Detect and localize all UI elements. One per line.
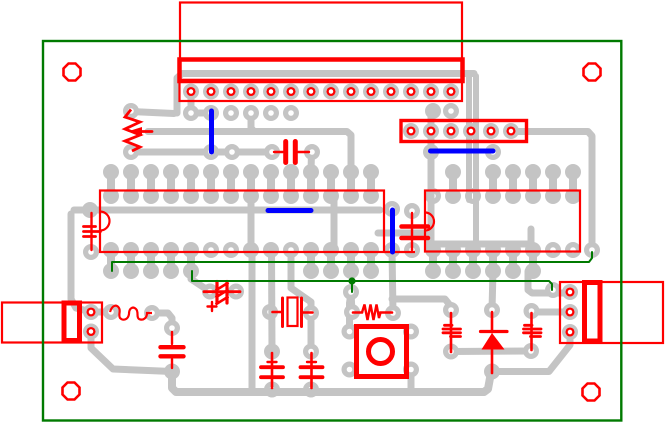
jumper W4 — [390, 210, 395, 252]
capacitor C5 — [524, 313, 542, 350]
pair link low x453 — [449, 250, 457, 271]
pair link x131 — [127, 172, 135, 196]
pair link x151 — [147, 172, 155, 196]
IC U2 notch — [425, 213, 434, 231]
pair link low x131 — [127, 250, 135, 271]
pair link x493 — [489, 172, 497, 196]
wire R1 left up — [351, 292, 352, 312]
pair link x191 — [187, 172, 195, 196]
jumper W3 — [431, 149, 494, 154]
pair link low x351 — [347, 250, 355, 271]
wire bus col B — [473, 76, 479, 244]
pair link low x371 — [367, 250, 375, 271]
capacitor C3 — [402, 213, 429, 250]
wire C6 diag — [191, 271, 210, 292]
pair link x311 — [307, 172, 315, 196]
wire blue4 col — [392, 250, 393, 313]
mounting hole bottom-right — [583, 384, 600, 401]
wire pot top to via — [131, 112, 174, 114]
wire crystal to C9 — [308, 313, 315, 352]
wire col251 down — [249, 250, 256, 391]
capacitor C2 — [274, 142, 309, 163]
trimmer RV1 — [125, 110, 152, 152]
pair link x553 — [549, 172, 557, 196]
capacitor C8 — [261, 353, 283, 388]
pair link low x331 — [327, 250, 335, 271]
wire J1 pin1 down — [191, 92, 211, 114]
pair link x171 — [167, 172, 175, 196]
connector X1 body — [2, 303, 102, 343]
mounting hole top-left — [64, 64, 81, 81]
silk line under C3 — [384, 251, 415, 253]
IC U1 outline — [100, 191, 384, 253]
capacitor C4 — [443, 313, 461, 352]
pair link low x111 — [107, 250, 115, 271]
pad red rings — [88, 88, 574, 335]
pair link x111 — [107, 172, 115, 196]
wire X2 pin1 — [528, 271, 569, 293]
capacitor C6 — [204, 282, 240, 312]
pair link x371 — [367, 172, 375, 196]
fuse F1 — [110, 306, 152, 320]
pair link x513 — [509, 172, 517, 196]
wire J1 bus — [177, 74, 474, 114]
connector J1 pin frame — [180, 80, 463, 101]
pair link low x171 — [167, 250, 175, 271]
wire C4 C5 bottom — [451, 348, 531, 356]
wire crystal right chain — [291, 250, 311, 313]
connector J1 body — [180, 3, 462, 60]
wire col271 down — [268, 250, 276, 352]
connector X2 bar — [585, 283, 601, 342]
wire U1-U2 link — [378, 229, 531, 244]
pair link low x513 — [509, 250, 517, 271]
pair link low x533 — [529, 250, 537, 271]
IC U1 notch — [100, 212, 110, 231]
wire X1 pin2 diag — [91, 332, 172, 372]
wire C5 to X2 — [532, 309, 571, 316]
mounting hole bottom-left — [63, 383, 80, 400]
pair link x351 — [347, 172, 355, 196]
board outline — [43, 41, 621, 421]
wire X1 pin1 — [91, 309, 111, 316]
pair link x573 — [569, 172, 577, 196]
wire wiper to U1 — [148, 132, 351, 173]
wire via431 down — [431, 111, 433, 250]
mounting hole top-right — [584, 64, 601, 81]
diode D1 — [481, 312, 508, 373]
capacitor C7 — [161, 332, 184, 368]
wire vcc branch — [392, 299, 450, 311]
resistor R1 — [353, 305, 392, 321]
wire row152 — [131, 149, 272, 156]
wire F1 to C7 — [152, 313, 172, 328]
connector J1 shroud — [180, 60, 463, 82]
IC U2 outline — [425, 191, 580, 252]
pushbutton S1 — [357, 327, 407, 377]
wire D1 to X2 — [492, 334, 570, 372]
wire left rail — [71, 214, 91, 312]
net GND green A — [112, 252, 592, 271]
wire bus col A — [466, 74, 472, 200]
pair link low x473 — [469, 250, 477, 271]
pair link x533 — [529, 172, 537, 196]
connector J2 frame — [401, 121, 527, 142]
pair link low x151 — [147, 250, 155, 271]
capacitor C9 — [301, 353, 323, 388]
pair link x453 — [449, 172, 457, 196]
node junction — [348, 277, 355, 292]
wire gnd bus — [172, 372, 492, 393]
net green B — [192, 271, 552, 290]
pair link low x311 — [307, 250, 315, 271]
pair link low x493 — [489, 250, 497, 271]
pair link x291 — [287, 172, 295, 196]
wire J2 to right — [511, 132, 592, 251]
wire row210 horizontal — [74, 207, 380, 214]
capacitor C1 — [84, 213, 101, 250]
pair link low x433 — [429, 250, 437, 271]
connector X2 body — [560, 282, 663, 343]
wire U1 col251 — [248, 196, 255, 250]
wire S1 br stub — [408, 370, 415, 390]
jumper W1 — [209, 111, 214, 152]
jumper W2 — [268, 208, 311, 213]
pair link x211 — [207, 172, 215, 196]
pair link x331 — [327, 172, 335, 196]
wire D1 up — [492, 271, 493, 310]
pair link x231 — [227, 172, 235, 196]
wire U1 col334 — [331, 196, 338, 250]
pads (copper) — [85, 85, 598, 395]
wire wiper band — [251, 113, 254, 132]
connector X1 bar — [64, 303, 80, 341]
wire C2 to pad — [308, 152, 316, 172]
crystal Q1 — [273, 298, 313, 327]
pair link x271 — [267, 172, 275, 196]
pair link x251 — [247, 172, 255, 196]
pair link low x191 — [187, 250, 195, 271]
wire S1 topleft up — [350, 294, 352, 332]
